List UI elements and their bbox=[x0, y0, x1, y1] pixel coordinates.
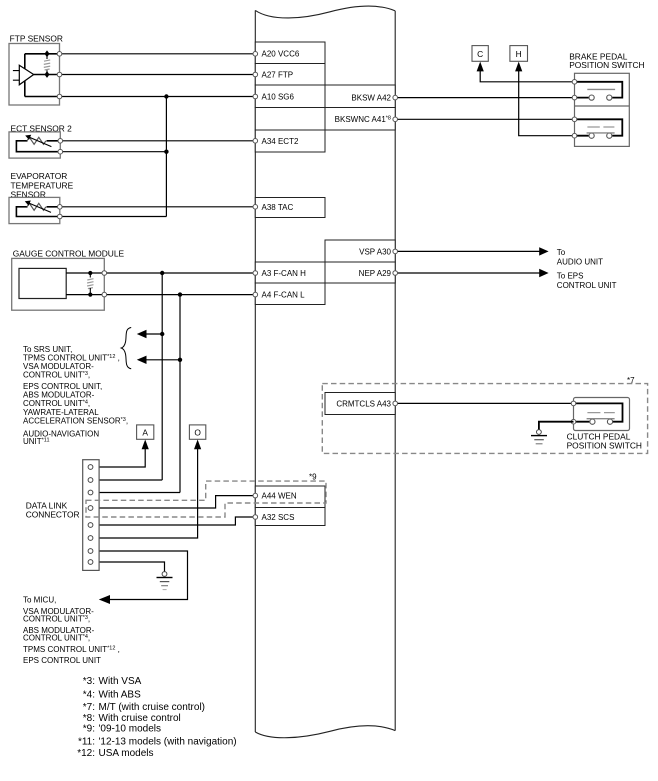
wire brake NC to H bbox=[515, 62, 574, 136]
svg-text:A3 F-CAN H: A3 F-CAN H bbox=[262, 269, 307, 278]
wire DLC3 to F-CAN L bbox=[91, 492, 181, 494]
pin A44 circle bbox=[253, 493, 258, 498]
svg-text:BKSWNC A41*8: BKSWNC A41*8 bbox=[335, 115, 391, 124]
gauge module CAN wires bbox=[66, 273, 255, 295]
svg-text:O: O bbox=[194, 428, 201, 438]
svg-text:POSITION SWITCH: POSITION SWITCH bbox=[567, 440, 642, 450]
svg-text:*12:: *12: bbox=[77, 748, 95, 759]
gauge module pin L circle bbox=[102, 292, 107, 297]
thermistor EVAP bbox=[16, 201, 59, 217]
wire NEP to EPS bbox=[395, 269, 616, 290]
dashed variant box *7 bbox=[322, 376, 647, 454]
pin A38 circle bbox=[253, 205, 258, 210]
ECT sensor 2 label bbox=[11, 123, 73, 133]
EVAP pin ret circle bbox=[58, 214, 63, 219]
terminating resistor R-can bbox=[87, 271, 93, 297]
wire BKSWNC bbox=[395, 118, 574, 120]
pin box A34 bbox=[255, 130, 325, 152]
svg-text:With ABS: With ABS bbox=[99, 689, 142, 700]
pin A10 circle bbox=[253, 94, 258, 99]
pin A3 circle bbox=[253, 271, 258, 276]
ECM/PCM connector bus outline bbox=[255, 6, 395, 738]
wire DLC1 to A bbox=[91, 440, 149, 468]
evaporator temperature sensor box bbox=[9, 197, 60, 223]
svg-text:To: To bbox=[557, 248, 566, 257]
svg-text:*9: *9 bbox=[309, 473, 317, 482]
svg-text:FTP SENSOR: FTP SENSOR bbox=[10, 33, 63, 43]
wire F-CAN L vertical bbox=[179, 295, 181, 493]
wire BKSW bbox=[395, 97, 574, 99]
dashed variant loop *9 bbox=[86, 473, 326, 518]
pin NEP circle bbox=[393, 271, 398, 276]
footnotes bbox=[77, 676, 236, 759]
junction ECT return bbox=[164, 150, 168, 154]
DLC pin 5 bbox=[88, 523, 93, 528]
DLC pin 7 bbox=[88, 549, 93, 554]
svg-text:A: A bbox=[142, 428, 148, 438]
wire sensor-ground vertical bbox=[165, 97, 167, 217]
pin box A4 bbox=[255, 283, 325, 305]
wire DLC4 to A44 WEN bbox=[91, 496, 256, 508]
pin CRMTCLS circle bbox=[393, 401, 398, 406]
brake switch pin h bbox=[572, 133, 577, 138]
svg-text:A27 FTP: A27 FTP bbox=[262, 70, 294, 79]
DLC pin 3 bbox=[88, 490, 93, 495]
FTP sensor box bbox=[9, 44, 60, 106]
pin box NEP bbox=[325, 262, 395, 283]
wire DLC2 to F-CAN H bbox=[91, 479, 163, 481]
clutch switch pin in bbox=[571, 401, 576, 406]
brake switch NC contacts bbox=[575, 119, 623, 138]
svg-text:CONTROL UNIT*4,: CONTROL UNIT*4, bbox=[23, 633, 90, 642]
junction F-CAN H bbox=[160, 271, 164, 275]
svg-text:A38 TAC: A38 TAC bbox=[262, 203, 294, 212]
FTP inner wire top rail bbox=[25, 54, 60, 97]
EVAP pin sig circle bbox=[58, 205, 63, 210]
svg-text:A44 WEN: A44 WEN bbox=[262, 492, 297, 501]
FTP pin gnd circle bbox=[57, 94, 62, 99]
pin A4 circle bbox=[253, 292, 258, 297]
svg-text:'09-10 models: '09-10 models bbox=[99, 724, 162, 735]
svg-text:NEP A29: NEP A29 bbox=[359, 269, 392, 278]
wire VSP to audio bbox=[395, 247, 603, 266]
arrow to SRS branch H bbox=[137, 330, 165, 338]
brake switch pin bkswnc bbox=[572, 117, 577, 122]
brake switch NO contacts bbox=[575, 82, 623, 100]
svg-text:TPMS CONTROL UNIT*12 ,: TPMS CONTROL UNIT*12 , bbox=[23, 645, 120, 654]
pin A32 circle bbox=[253, 515, 258, 520]
brake pedal position switch box bbox=[575, 73, 630, 146]
wire DLC7 to MICU bbox=[91, 551, 188, 604]
svg-text:A4 F-CAN L: A4 F-CAN L bbox=[262, 291, 306, 300]
svg-text:To MICU,: To MICU, bbox=[23, 595, 56, 604]
FTP pin vcc circle bbox=[57, 52, 62, 57]
pin box A44 bbox=[255, 486, 325, 508]
svg-text:*3:: *3: bbox=[83, 676, 95, 687]
svg-text:To EPS: To EPS bbox=[557, 272, 584, 281]
arrow to SRS branch L bbox=[137, 356, 182, 364]
wire FTP signal bbox=[60, 74, 256, 76]
DLC pin 6 bbox=[88, 536, 93, 541]
svg-text:M/T (with cruise control): M/T (with cruise control) bbox=[99, 702, 206, 713]
svg-text:ACCELERATION SENSOR*3,: ACCELERATION SENSOR*3, bbox=[23, 416, 128, 425]
ECT2 pin sig circle bbox=[58, 139, 63, 144]
ECT sensor 2 box bbox=[9, 132, 60, 158]
svg-text:EPS CONTROL UNIT: EPS CONTROL UNIT bbox=[23, 656, 101, 665]
pin BKSW circle bbox=[393, 95, 398, 100]
wire brake NO to C bbox=[477, 62, 575, 82]
wire DLC8 to ground bbox=[91, 562, 165, 572]
svg-text:EVAPORATOR: EVAPORATOR bbox=[11, 171, 68, 181]
node A box bbox=[137, 425, 154, 439]
svg-text:A10 SG6: A10 SG6 bbox=[262, 92, 295, 101]
gauge control module label bbox=[13, 248, 125, 258]
wire EVAP return bbox=[60, 216, 167, 218]
svg-text:USA models: USA models bbox=[99, 748, 154, 759]
wire ECT2 return bbox=[60, 151, 166, 153]
FTP pin sig circle bbox=[57, 72, 62, 77]
brake pedal position switch label bbox=[569, 52, 644, 71]
wire clutch to ground bbox=[539, 422, 574, 430]
pin A20 circle bbox=[253, 52, 258, 57]
wire SG6 bbox=[60, 96, 256, 98]
svg-text:*7: *7 bbox=[627, 376, 635, 385]
clutch switch pin out bbox=[571, 419, 576, 424]
pin box A38 bbox=[255, 198, 325, 218]
pin A27 circle bbox=[253, 72, 258, 77]
svg-text:With cruise control: With cruise control bbox=[99, 713, 181, 724]
net list To MICU bbox=[23, 595, 120, 665]
pin VSP circle bbox=[393, 249, 398, 254]
svg-text:*4:: *4: bbox=[83, 689, 95, 700]
clutch switch contacts bbox=[574, 403, 623, 424]
svg-text:H: H bbox=[516, 49, 522, 59]
ground clutch bbox=[531, 430, 547, 444]
brace bbox=[121, 328, 131, 369]
svg-text:A20 VCC6: A20 VCC6 bbox=[262, 50, 300, 59]
svg-text:A32 SCS: A32 SCS bbox=[262, 513, 295, 522]
evaporator temperature sensor label bbox=[11, 171, 74, 200]
wire ECT2 signal bbox=[60, 140, 255, 142]
pin box A27 bbox=[255, 64, 325, 86]
resistor R-ftp bbox=[44, 50, 50, 78]
data link connector label bbox=[26, 501, 80, 520]
wire CRMTCLS bbox=[395, 402, 573, 404]
svg-text:C: C bbox=[477, 49, 483, 59]
svg-text:With VSA: With VSA bbox=[99, 676, 142, 687]
gauge module pin H circle bbox=[102, 271, 107, 276]
svg-text:*7:: *7: bbox=[83, 702, 95, 713]
junction F-CAN L bbox=[178, 292, 182, 296]
pin BKSWNC circle bbox=[393, 117, 398, 122]
wire F-CAN H vertical bbox=[161, 273, 163, 480]
wire DLC5 to A32 SCS bbox=[91, 517, 256, 525]
DLC pin 4 bbox=[88, 506, 93, 511]
svg-text:*11:: *11: bbox=[78, 737, 95, 748]
svg-text:AUDIO UNIT: AUDIO UNIT bbox=[557, 258, 603, 267]
pin A34 circle bbox=[253, 139, 258, 144]
wire DLC6 to O bbox=[91, 440, 202, 539]
FTP sensor label bbox=[10, 33, 63, 43]
svg-text:CONTROL UNIT: CONTROL UNIT bbox=[557, 281, 617, 290]
brake switch pin c bbox=[572, 80, 577, 85]
pin box BKSW bbox=[325, 85, 395, 108]
ground DLC bbox=[157, 572, 173, 590]
net list To SRS bbox=[23, 345, 128, 446]
pin box empty bbox=[255, 108, 325, 131]
clutch pedal position switch box bbox=[574, 398, 630, 431]
wire FTP VCC6 bbox=[60, 53, 256, 55]
junction SG6 bbox=[164, 94, 168, 98]
gauge control module inner unit bbox=[19, 268, 66, 298]
node C box bbox=[472, 46, 488, 62]
DLC pin 1 bbox=[88, 465, 93, 470]
svg-text:'12-13 models (with navigation: '12-13 models (with navigation) bbox=[99, 737, 237, 748]
pin box A20 bbox=[255, 42, 325, 64]
svg-text:CONNECTOR: CONNECTOR bbox=[26, 510, 80, 520]
ECT2 pin ret circle bbox=[58, 149, 63, 154]
wire TAC signal bbox=[60, 206, 256, 208]
pin box CRMTCLS bbox=[325, 393, 395, 415]
pin box A32 bbox=[255, 508, 325, 526]
svg-text:CRMTCLS A43: CRMTCLS A43 bbox=[336, 399, 391, 408]
FTP output wire bbox=[34, 74, 60, 76]
pin box BKSWNC bbox=[325, 108, 395, 131]
svg-text:BKSW A42: BKSW A42 bbox=[351, 94, 391, 103]
node H box bbox=[510, 46, 528, 62]
svg-text:CONTROL UNIT*3,: CONTROL UNIT*3, bbox=[23, 614, 90, 623]
gauge control module box bbox=[12, 258, 105, 310]
pin box VSP bbox=[325, 240, 395, 262]
clutch pedal position switch label bbox=[567, 431, 642, 450]
svg-text:GAUGE CONTROL MODULE: GAUGE CONTROL MODULE bbox=[13, 248, 125, 258]
data link connector box bbox=[83, 460, 99, 571]
svg-text:CONTROL UNIT*3,: CONTROL UNIT*3, bbox=[23, 371, 90, 380]
node O box bbox=[189, 425, 205, 439]
DLC pin 2 bbox=[88, 478, 93, 483]
brake switch pin bksw bbox=[572, 95, 577, 100]
svg-text:*9:: *9: bbox=[83, 724, 95, 735]
DLC pin 8 bbox=[88, 560, 93, 565]
op-amp U1 bbox=[13, 65, 34, 85]
pin box A10 bbox=[255, 85, 325, 108]
svg-text:*8:: *8: bbox=[83, 713, 95, 724]
pin box A3 bbox=[255, 262, 325, 283]
svg-text:POSITION SWITCH: POSITION SWITCH bbox=[569, 60, 644, 70]
thermistor ECT2 bbox=[16, 135, 60, 152]
svg-text:A34 ECT2: A34 ECT2 bbox=[262, 137, 299, 146]
svg-text:VSP A30: VSP A30 bbox=[359, 247, 391, 256]
